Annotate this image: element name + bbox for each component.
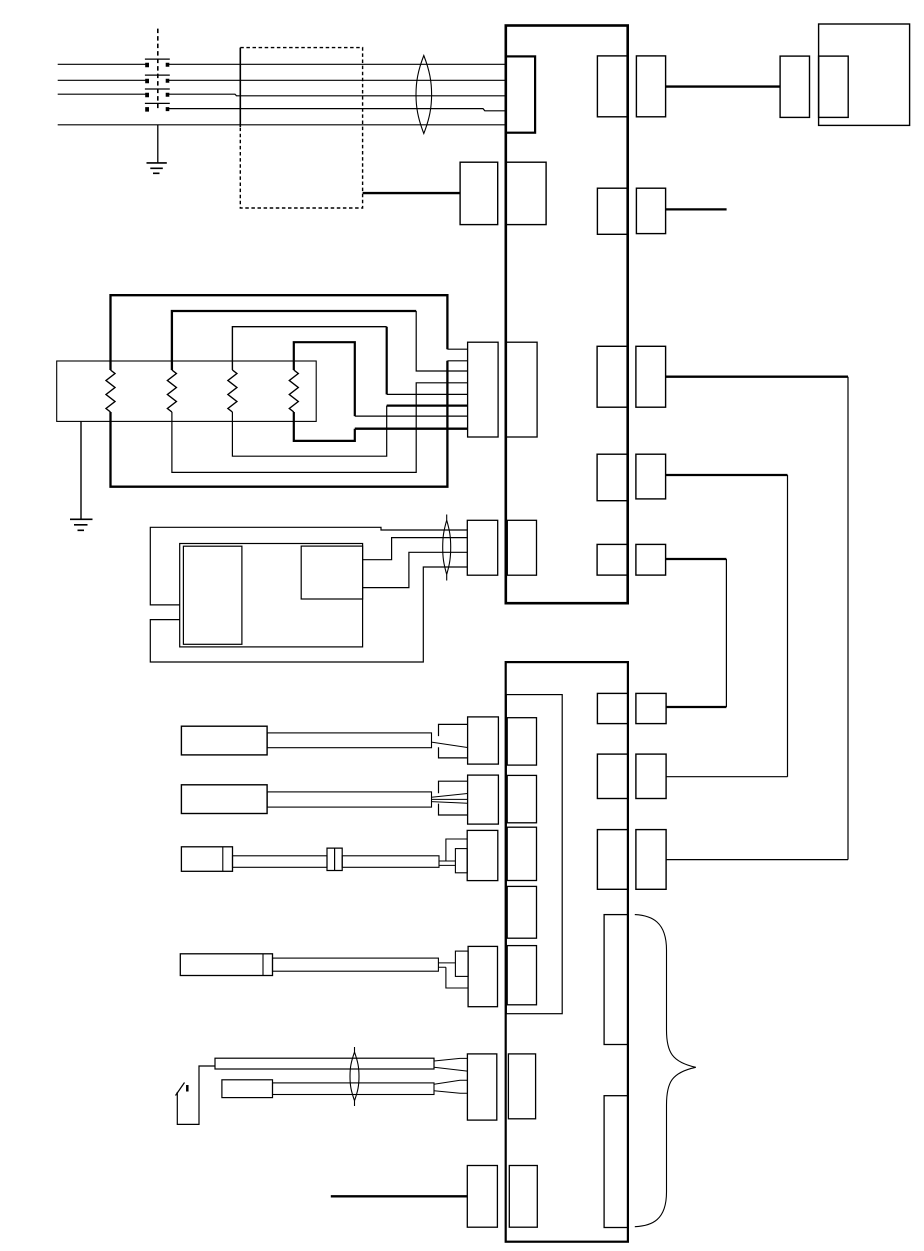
connector pair C ECM side: [597, 346, 628, 407]
wire W3 harness feed: [58, 94, 506, 96]
U2 output port 2 tall: [604, 1096, 628, 1228]
ground stem from W5: [157, 125, 159, 163]
wire W4 harness feed: [169, 109, 506, 111]
sensor S1 connector boot: [439, 724, 468, 758]
wire W5 ground feed: [58, 124, 506, 126]
sensor S1 connector: [468, 717, 499, 764]
wire stubs C2 pins 1-2: [447, 349, 467, 361]
sensor S3 connector: [467, 830, 498, 880]
wire loop resistor R4 lower run: [294, 412, 355, 441]
sensor S3 terminal box: [455, 849, 467, 873]
device box top right: [819, 24, 910, 125]
connector C3 harness side: [467, 520, 497, 575]
wire U2 pair 2: [666, 776, 787, 778]
connector C3 ECM side: [507, 520, 536, 575]
sensor S3 body divider: [222, 847, 224, 872]
sensor S2 lead wires: [432, 794, 468, 804]
sensor S5 probe tube A: [215, 1058, 434, 1069]
sensor S4 terminal box: [455, 951, 468, 976]
sensor S1 lead wire: [432, 742, 468, 747]
wire stub C2 pin 5: [387, 393, 468, 395]
wire module to connector C3 pin3: [363, 552, 468, 587]
sensor S2 body: [181, 785, 267, 814]
sensor S2 connector boot: [439, 781, 468, 815]
control module M1 outer case: [180, 544, 363, 647]
ground symbol G2: [70, 519, 93, 530]
inline connector X1 dashed separation line: [157, 29, 159, 109]
U2 right pair 1 harness side: [636, 693, 666, 723]
connector pair B harness side: [636, 188, 665, 233]
connector pair A harness side: [636, 56, 665, 117]
U2 right pair 2 block side: [597, 754, 628, 798]
wire loop resistor R1 to connector C2 pins 1-2: [111, 295, 448, 487]
connector C1 on ECM (power input): [506, 56, 535, 132]
connector C2 harness side: [468, 342, 499, 437]
sensor S5 switch contact: [176, 1083, 185, 1096]
U2 right pair 1 block side: [597, 693, 628, 723]
connector pair E harness side: [636, 544, 666, 575]
wire stub C2 pin 8: [355, 428, 468, 430]
wire pair D vertical run: [787, 475, 789, 777]
sensor S4 body: [180, 954, 272, 976]
connector pair B ECM side: [597, 188, 627, 234]
wire loop resistor R3 lower run: [232, 406, 386, 457]
wire pair A to device: [666, 85, 781, 87]
wire loop resistor R3 upper run: [232, 327, 386, 370]
ground stem from resistor pack: [80, 421, 82, 519]
sensor S3 body: [181, 847, 232, 872]
sensor S3 cable segment 2: [342, 856, 439, 868]
wire pair C vertical run: [847, 377, 849, 860]
dashed box relay unit: [240, 48, 362, 208]
inner connector row frame in U2: [506, 695, 562, 1014]
inline connector X1 right pins: [166, 63, 170, 111]
resistor R2: [167, 370, 176, 412]
U2 output port 1 tall: [604, 915, 628, 1045]
control module M1 left section: [183, 546, 242, 644]
injector resistor pack housing: [57, 361, 317, 421]
bottom signal wire: [331, 1195, 468, 1197]
sensor S4 lead wires: [438, 963, 455, 967]
U2 right pair 2 harness side: [636, 754, 666, 798]
sensor S3 jumper wire: [446, 839, 467, 861]
sensor S4 cable: [273, 958, 439, 971]
U2 connector slot 2: [507, 775, 536, 822]
inline connector X1 contact bars: [145, 59, 170, 103]
U2 connector slot 3: [507, 827, 536, 880]
wire W1 harness feed: [58, 63, 506, 65]
wire pair C horizontal run: [666, 376, 848, 378]
connector C2 ECM side: [506, 342, 537, 437]
sensor S3 cable segment 1: [233, 856, 328, 868]
wire module loop top to connector C3 pin1: [150, 527, 467, 605]
wire stub from pair B: [666, 208, 727, 210]
sensor S5 ground lead: [177, 1066, 215, 1124]
wire module to connector C3 pin2: [363, 538, 468, 560]
sensor S5 probe tube B: [273, 1083, 435, 1095]
sensor S3 lead wires: [439, 861, 455, 865]
solid segment on relay unit left edge: [239, 48, 241, 127]
wire U2 pair 1: [666, 706, 726, 708]
U2 right pair 3 harness side: [636, 830, 666, 890]
U2 connector slot 4 spare: [507, 886, 536, 938]
wire stub C2 pin 7: [355, 415, 468, 417]
connector P0a relay side: [460, 162, 498, 224]
sensor S5 tube B lead wires: [434, 1080, 467, 1093]
U2 connector slot 1: [507, 718, 536, 765]
sensor S4 jumper wire: [446, 967, 468, 988]
sensor S1 body: [181, 726, 267, 755]
wire pair E vertical run: [725, 559, 727, 707]
control module M1 upper right section: [301, 546, 362, 599]
sensor S5 tube A lead wires: [434, 1058, 467, 1071]
wire from relay unit to connector P0: [363, 192, 461, 194]
sensor S2 connector: [468, 775, 499, 824]
cable bundle marker E3: [350, 1047, 359, 1106]
sensor S5 switch terminal: [186, 1085, 189, 1092]
wire pair D horizontal run: [666, 474, 788, 476]
wire loop resistor R2 lower run and stubs: [172, 311, 468, 472]
curly brace grouping outputs: [635, 915, 696, 1227]
sensor S5 block-side connector: [508, 1054, 535, 1119]
wire pair E horizontal run: [666, 558, 727, 560]
wire loop resistor R4 upper run: [294, 342, 355, 416]
U2 right pair 3 block side: [597, 830, 628, 890]
connector pair E ECM side: [597, 544, 628, 575]
wire loop resistor R2 upper run: [172, 311, 416, 370]
inline connector X1 left pins: [145, 63, 149, 112]
U2 connector slot 5: [507, 946, 536, 1005]
cable bundle marker E1: [416, 56, 432, 134]
resistor R1: [106, 370, 115, 412]
bottom connector block side: [509, 1166, 537, 1228]
sensor S2 cable: [267, 792, 431, 807]
connector pair D harness side: [636, 454, 666, 499]
ECM main block U1: [506, 26, 628, 604]
connector pair D ECM side: [597, 454, 628, 501]
sensor S5 connector: [467, 1054, 496, 1120]
connector P0b ECM side: [506, 162, 546, 224]
sensor S1 cable: [267, 733, 431, 748]
connector pair A ECM side: [597, 56, 627, 117]
resistor R3: [228, 370, 237, 412]
wire stub C2 pin 6: [387, 404, 468, 406]
sensor interface block U2: [506, 662, 628, 1242]
bottom connector harness side: [467, 1166, 497, 1228]
ground symbol G1: [147, 163, 167, 173]
sensor S3 inline connector halves: [327, 848, 342, 870]
wire loop resistor R3 right vertical: [386, 327, 388, 395]
sensor S5 probe B body: [222, 1080, 273, 1098]
wire U2 pair 3: [666, 859, 848, 861]
cable bundle marker E2: [443, 515, 451, 581]
wire W2 harness feed: [58, 79, 506, 81]
sensor S4 body divider: [262, 954, 264, 976]
connector on device side: [819, 56, 849, 117]
sensor S4 connector: [468, 946, 497, 1006]
wire module loop bottom to connector C3 pin4: [150, 567, 467, 662]
resistor R4: [289, 370, 298, 412]
connector pair C harness side: [636, 346, 666, 407]
connector on device harness side: [780, 56, 809, 117]
